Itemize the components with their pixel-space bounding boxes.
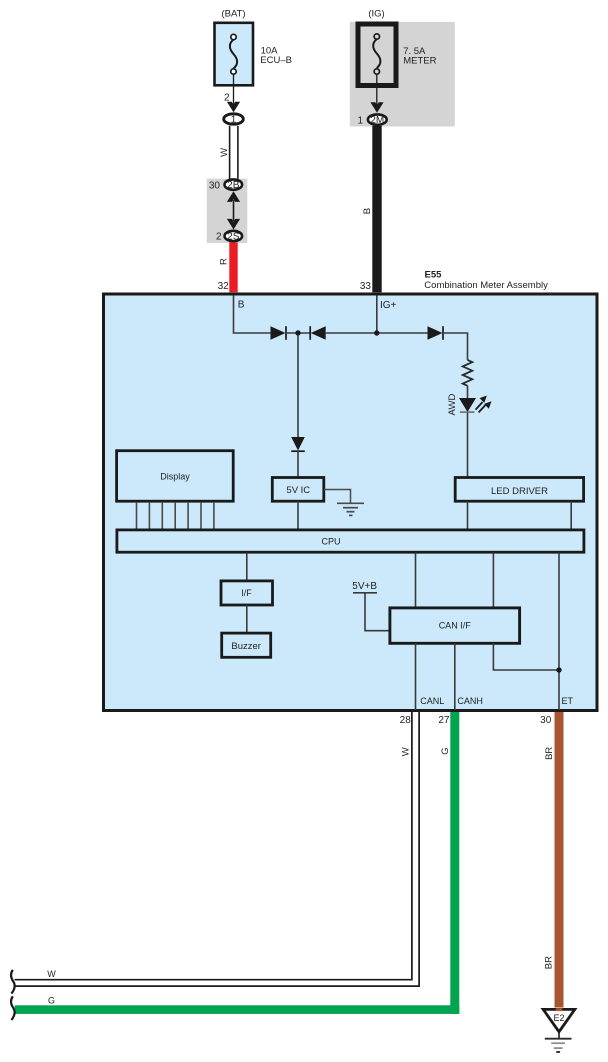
svg-text:30: 30 [540,715,552,726]
wire 5V+B tap to CAN I/F [353,593,389,631]
pin name CANH [457,696,483,706]
pin name IG+ [380,300,397,311]
svg-text:32: 32 [218,281,230,292]
wire color label W [219,148,230,157]
connector 2M [368,114,387,126]
pin 2 label [224,93,230,104]
wire resistor to LED [467,386,469,399]
svg-text:ET: ET [562,696,574,706]
node junction dot ET [556,667,561,672]
wire color label W vertical [401,747,412,756]
connector 1 [224,114,244,126]
wire R (red) vertical [229,242,237,292]
pin 1 label [357,115,363,126]
svg-text:G: G [48,996,55,1006]
wire B (black) vertical [372,126,381,292]
svg-text:30: 30 [209,180,221,191]
svg-text:ECU–B: ECU–B [260,55,292,66]
value label 10A ECU-B [260,46,292,66]
svg-text:E2: E2 [553,1013,564,1023]
svg-text:1: 1 [231,115,237,126]
svg-text:R: R [219,258,230,265]
box Buzzer [222,633,271,657]
svg-text:W: W [401,747,412,756]
svg-text:1: 1 [357,115,363,126]
svg-text:Display: Display [160,471,190,481]
wire D1 to D2 [286,332,310,334]
LED D5 AWD indicator [459,396,492,413]
pin name B [238,299,245,310]
wire fuse F2 to connector [376,74,378,107]
wire CPU to ET pin [558,553,560,711]
svg-text:LED DRIVER: LED DRIVER [491,486,548,497]
pin name ET [562,696,574,706]
ground internal at 5V IC [324,490,364,516]
connector 2S [225,231,243,243]
wire 5V IC to CPU [297,501,299,529]
resistor R1 [463,360,473,386]
node junction dot A [295,330,300,335]
svg-text:(IG): (IG) [368,9,384,20]
wire LED to LED DRIVER [467,413,469,477]
svg-text:Buzzer: Buzzer [231,641,261,652]
wire CANH below CAN I/F [454,643,456,710]
box LED DRIVER [455,478,583,502]
break symbol G wire [11,996,15,1020]
wire G (green) CANH run [15,712,460,1014]
connector 2B [225,179,243,191]
wire CANL below CAN I/F [415,643,417,710]
svg-text:AWD: AWD [447,394,458,416]
wire node A down to D4 [297,335,299,437]
label (IG) [368,9,384,20]
double arrow link 2B-2S [227,191,240,229]
net label 5V+B [352,581,377,592]
pin 28 label [400,715,412,726]
box CAN I/F [390,608,520,643]
wire I/F to Buzzer [246,605,248,633]
svg-text:G: G [440,747,451,754]
fuse F2 7.5A METER [358,24,396,86]
label AWD [447,394,458,416]
svg-text:METER: METER [403,55,436,66]
wires LED DRIVER to CPU [468,501,572,529]
diode D1 [271,326,287,340]
svg-text:W: W [47,969,56,979]
svg-text:27: 27 [438,715,450,726]
arrow into connector 2M [370,102,383,113]
svg-text:BR: BR [544,956,555,969]
component label E55 Combination Meter Assembly [424,270,548,291]
svg-text:5V IC: 5V IC [286,485,310,496]
wire color label BR vertical upper [544,747,555,760]
pin 32 label [218,281,230,292]
diode D2 [310,326,326,340]
svg-text:2M: 2M [370,115,384,126]
wire BR (brown) ET run [555,712,564,1008]
svg-text:CPU: CPU [321,536,340,546]
pin 2 label [216,232,222,243]
svg-text:2B: 2B [227,180,240,191]
svg-text:CAN I/F: CAN I/F [439,620,472,630]
svg-text:5V+B: 5V+B [352,581,377,592]
pin 30 label [209,180,221,191]
relay block gray panel (IG) [350,22,455,127]
node junction dot IG [374,330,379,335]
box CPU [117,530,584,552]
wire W (white) vertical [230,126,238,179]
wire color label R [219,258,230,265]
svg-text:I/F: I/F [241,588,252,598]
box I/F [221,581,273,605]
ground E2 [543,1008,575,1052]
junction block J/B gray [207,179,248,243]
svg-text:33: 33 [360,281,372,292]
wire CPU to I/F [246,553,248,582]
svg-text:IG+: IG+ [380,300,397,311]
wire node B down and right [234,296,271,334]
svg-text:CANH: CANH [457,696,483,706]
diode D3 [428,326,444,340]
diode D4 [291,437,305,451]
wire W (white) CANL run [15,712,420,986]
pin 33 label [360,281,372,292]
wire color label W horizontal [47,969,56,979]
wire D3 to resistor corner [443,333,468,360]
svg-text:W: W [219,148,230,157]
svg-text:CANL: CANL [420,696,444,706]
wire fuse F1 to connector [233,74,235,107]
break symbol W wire [11,970,15,994]
wire color label G horizontal [48,996,55,1006]
wires CPU to CAN I/F [416,553,494,609]
pin 27 label [438,715,450,726]
wire color label G vertical [440,747,451,754]
wire D4 to 5V IC [297,451,299,477]
ECU box E55 [104,294,598,711]
value label 7.5A METER [403,46,436,66]
svg-text:2S: 2S [227,232,240,243]
fuse F1 10A ECU-B [215,23,254,86]
bus Display to CPU [137,502,214,529]
label (BAT) [221,9,245,20]
svg-text:Combination Meter Assembly: Combination Meter Assembly [424,280,548,291]
wire D2 to D3 [326,332,428,334]
wire IG+ down [376,296,378,334]
svg-text:B: B [362,208,373,214]
box Display [117,451,234,502]
svg-text:B: B [238,299,245,310]
wire color label BR vertical lower [544,956,555,969]
svg-text:(BAT): (BAT) [221,9,245,20]
box 5V IC [272,478,324,502]
pin 30 label [540,715,552,726]
svg-text:28: 28 [400,715,412,726]
wire CAN I/F to ET node [493,643,559,670]
svg-text:BR: BR [544,747,555,760]
pin name CANL [420,696,444,706]
wire color label B [362,208,373,214]
svg-text:2: 2 [216,232,222,243]
arrow into connector 1 [227,102,240,113]
